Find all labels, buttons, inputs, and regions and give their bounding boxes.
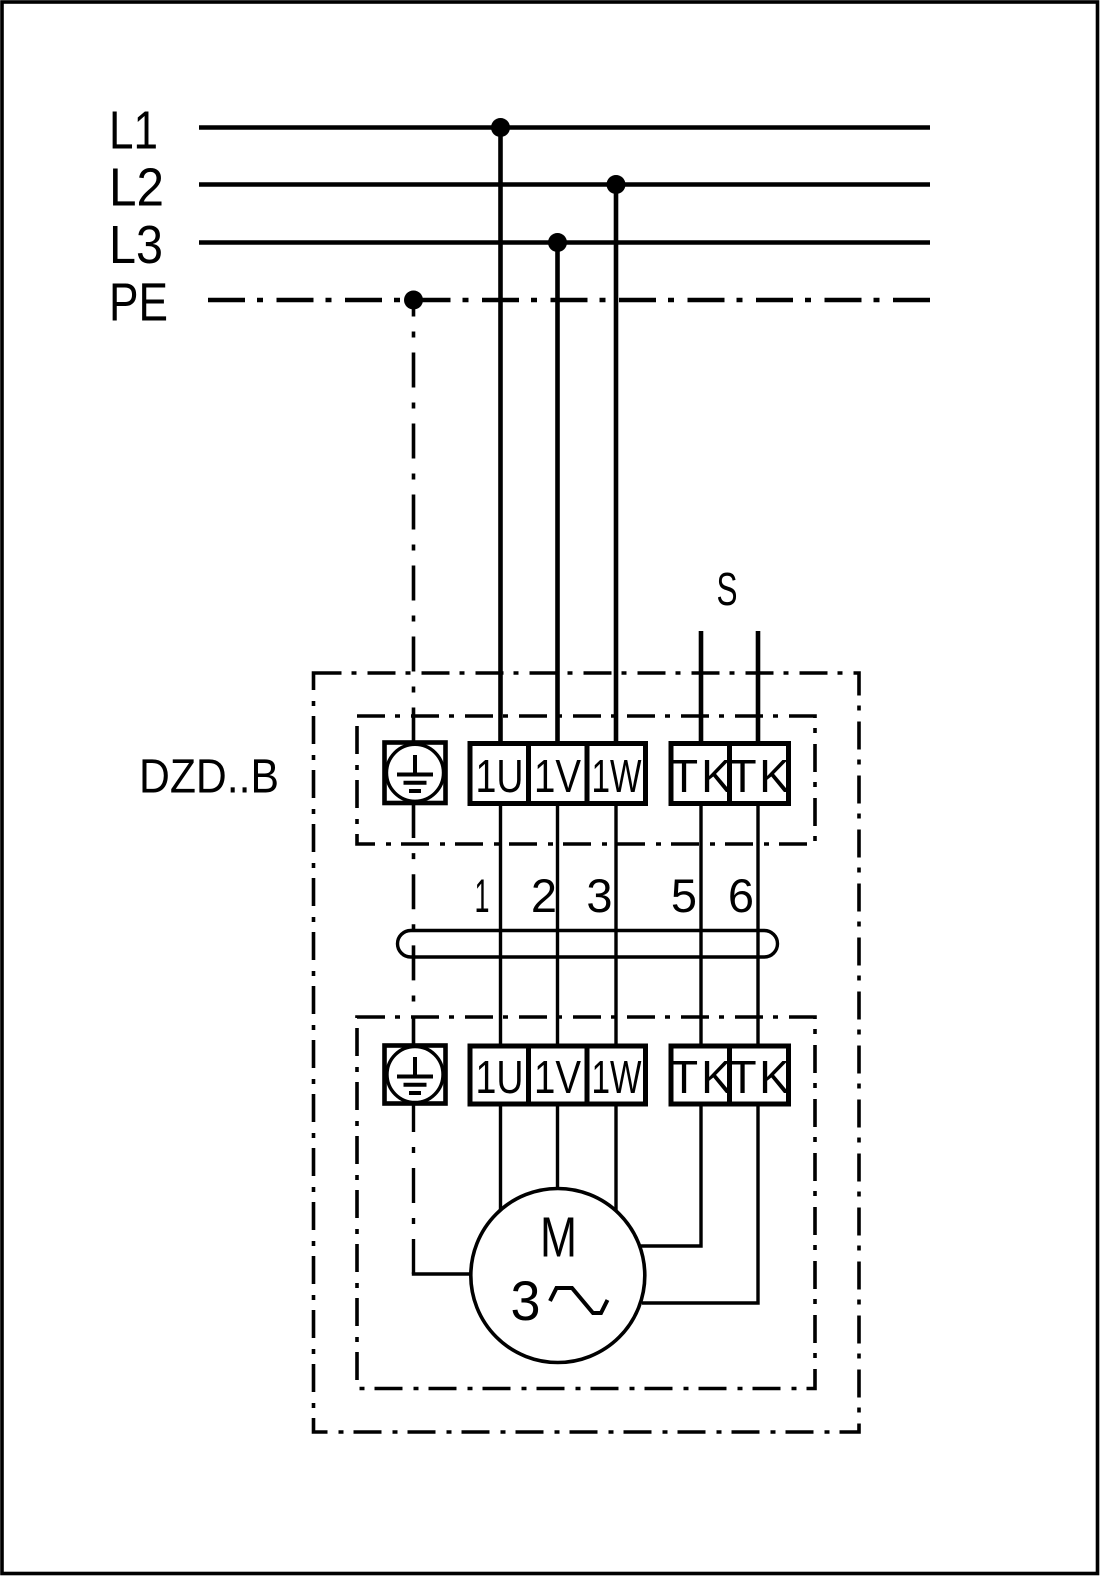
terminal TK left (row 2) [670, 1046, 732, 1104]
wire terminal 1U row2 to motor [499, 1104, 502, 1215]
wire 6 between strips [756, 804, 759, 1047]
wire terminal TK right row2 to motor [642, 1104, 758, 1303]
svg-text:1W: 1W [592, 750, 642, 802]
terminal strip 1 box [357, 716, 815, 844]
junction on L3 [548, 233, 567, 252]
junction on PE [404, 291, 423, 310]
wire terminal 1W row2 to motor [614, 1104, 617, 1215]
junction on L2 [607, 175, 626, 194]
bus L3 [199, 240, 930, 245]
motor M1 [471, 1189, 645, 1363]
svg-text:T: T [670, 750, 698, 802]
bus L1 [199, 125, 930, 130]
svg-text:K: K [759, 750, 790, 802]
svg-text:1W: 1W [592, 1051, 642, 1103]
bus L2 [199, 182, 930, 187]
motor unit box [357, 1017, 815, 1389]
wire terminal TK left row2 to motor [640, 1104, 701, 1246]
svg-text:L3: L3 [109, 215, 163, 275]
wire 5 between strips [699, 804, 702, 1047]
svg-text:1U: 1U [476, 1051, 524, 1103]
wire PE between earth terminals [412, 803, 416, 1046]
terminal 1V (row 2) [529, 1046, 588, 1104]
terminal TK right (row 1) [728, 744, 790, 804]
svg-text:T: T [728, 750, 756, 802]
svg-text:T: T [670, 1051, 698, 1103]
svg-text:M: M [540, 1206, 577, 1270]
svg-text:3: 3 [586, 869, 612, 922]
enclosure DZD..B [314, 673, 860, 1432]
wire L3 to terminal 1V [555, 243, 560, 744]
wire L1 to terminal 1U [498, 128, 503, 744]
svg-text:1V: 1V [534, 750, 581, 802]
terminal 1U (row 1) [470, 744, 529, 804]
svg-text:L1: L1 [109, 101, 158, 161]
svg-text:6: 6 [728, 869, 754, 922]
wire 3 between strips [614, 804, 617, 1047]
svg-text:1V: 1V [534, 1051, 581, 1103]
wire terminal 1V row2 to motor [556, 1104, 559, 1192]
svg-text:T: T [728, 1051, 756, 1103]
junction on L1 [491, 118, 510, 137]
wire PE earth terminal 2 to motor [412, 1104, 415, 1275]
PE terminal 1 (earth symbol) [385, 743, 446, 804]
svg-text:2: 2 [531, 869, 557, 922]
svg-text:3: 3 [511, 1269, 541, 1332]
svg-text:5: 5 [671, 869, 697, 922]
PE terminal 2 (earth symbol) [385, 1046, 446, 1104]
wire 2 between strips [556, 804, 559, 1047]
cable bundle [398, 931, 778, 958]
wire PE to earth terminal [412, 300, 416, 743]
terminal 1W (row 1) [587, 744, 646, 804]
svg-text:PE: PE [109, 273, 168, 333]
svg-text:S: S [717, 563, 738, 615]
bus PE [208, 298, 930, 303]
svg-text:DZD..B: DZD..B [139, 751, 279, 804]
svg-text:1: 1 [475, 869, 490, 922]
terminal 1U (row 2) [470, 1046, 529, 1104]
terminal TK left (row 1) [670, 744, 732, 804]
terminal TK right (row 2) [728, 1046, 790, 1104]
wire L2 to terminal 1W [614, 185, 619, 744]
terminal 1W (row 2) [587, 1046, 646, 1104]
svg-text:K: K [759, 1051, 790, 1103]
wire S right to terminal TK [756, 631, 761, 744]
wire S left to terminal TK [699, 631, 704, 744]
svg-text:1U: 1U [476, 750, 524, 802]
wire 1 between strips [499, 804, 502, 1047]
svg-text:L2: L2 [109, 158, 164, 218]
terminal 1V (row 1) [529, 744, 588, 804]
